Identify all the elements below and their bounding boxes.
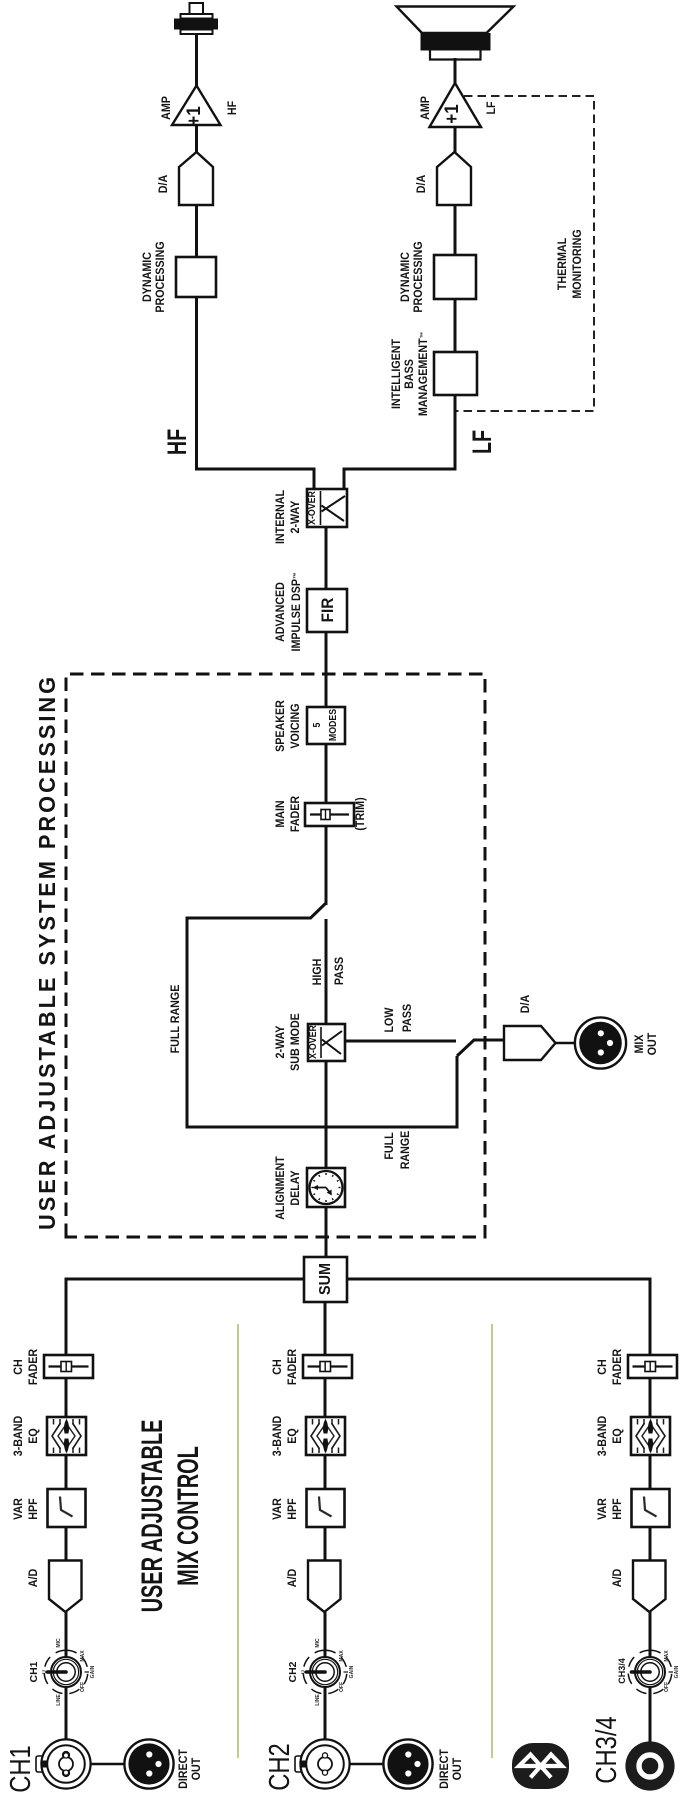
label CH1 CH fader [12,1349,42,1385]
LF amp [430,83,482,127]
label LF amp gain [445,104,461,124]
label CH2 channel name [265,1743,295,1791]
CH1 direct out XLR [124,1739,173,1788]
CH1 A/D converter [49,1561,82,1613]
CH2 channel fader block [303,1355,352,1378]
label CH2 direct out [439,1749,465,1789]
label CH3/4 VAR HPF [596,1498,626,1520]
label CH3/4 channel name [592,1716,622,1783]
wire switch to main fader [325,826,328,905]
wire CH2 A/D to HPF [324,1527,327,1561]
HF compression driver [174,3,218,34]
wire CH2 HPF to EQ [324,1455,327,1489]
wire CH1 knob to A/D [65,1612,68,1657]
wire CH3/4 RCA to knob [649,1686,652,1742]
CH1 channel fader block [44,1355,93,1378]
CH1 3-band EQ block [47,1417,86,1455]
label thermal monitoring [556,229,586,298]
CH3/4 gain knob [628,1650,673,1694]
label full range bottom [383,1132,398,1159]
label CH3/4 CH fader [596,1349,626,1385]
label FIR [320,598,336,623]
label HF small [226,101,241,115]
mix out D/A converter [504,1026,556,1060]
internal 2-way x-over block [307,489,347,527]
label CH1 3-band EQ [12,1416,42,1456]
label full range top [169,985,184,1054]
wire low pass out of sub x-over [345,1040,456,1043]
wire CH1 A/D to HPF [65,1527,68,1561]
label SUM [318,1263,334,1295]
wire CH1 fader to bus [66,1279,304,1355]
wire CH2 EQ to fader [324,1378,327,1417]
wire speaker voicing to FIR [325,632,328,707]
LF dynamic processing block [434,255,476,299]
switch lever full range select [310,903,326,919]
CH2 gain knob [303,1650,348,1694]
CH1 combo XLR input jack [36,1739,91,1788]
dashed box THERMAL MONITORING [456,96,594,411]
wire main fader to speaker voicing [325,744,328,803]
green separator line 2 [491,1324,493,1758]
wire LF line to woofer [454,58,457,471]
CH3/4 channel fader block [628,1355,677,1378]
wire CH2 fader to SUM [324,1301,327,1355]
title user adjustable mix control [135,1420,207,1613]
label trim [354,797,369,830]
label LF big [468,430,496,454]
title user adjustable system processing [35,674,59,1230]
label CH3/4 knob ticks [664,1650,670,1661]
label LF amp [419,96,434,120]
label CH2 3-band EQ [271,1416,301,1456]
wire high pass sub x-over to switch [325,919,328,1024]
CH3/4 3-band EQ block [631,1417,670,1455]
green separator line 1 [237,1324,239,1758]
label speaker voicing [274,700,304,752]
CH3/4 A/D converter [633,1561,666,1613]
alignment delay block [307,1168,345,1207]
label alignment delay [274,1156,304,1220]
label high pass [311,959,326,986]
wire CH1 HPF to EQ [65,1455,68,1489]
label 5 modes [310,709,342,741]
label mix out D/A [519,995,534,1013]
wire CH3/4 knob to A/D [649,1612,652,1657]
label mix out [634,1033,660,1056]
CH2 A/D converter [308,1561,341,1613]
CH2 direct out XLR [383,1739,432,1788]
wire alignment delay to sub x-over [325,1061,328,1168]
wire CH3/4 fader to bus [347,1279,650,1355]
wire CH3/4 EQ to fader [649,1378,652,1417]
switch lever mix out select [457,1040,474,1056]
dashed box USER ADJUSTABLE SYSTEM PROCESSING [66,674,485,1237]
wire CH3/4 A/D to HPF [649,1527,652,1561]
label internal 2-way [274,490,304,544]
label CH2 VAR HPF [271,1498,301,1520]
CH1 variable HPF block [48,1489,86,1527]
wire x-over HF stub [197,469,314,489]
wire to mix out D/A [473,1039,505,1042]
label 2-way sub mode [274,1013,304,1071]
wire CH1 EQ to fader [65,1378,68,1417]
CH3/4 variable HPF block [632,1489,670,1527]
wire CH3/4 HPF to EQ [649,1455,652,1489]
wire SUM to alignment delay [325,1207,328,1257]
wire CH2 knob to A/D [324,1612,327,1657]
label HF D/A [157,175,172,193]
CH1 gain knob [44,1650,89,1694]
label CH2 knob ticks [301,1670,307,1674]
label x-over sub [309,1026,319,1060]
label CH3/4 knob name [617,1658,628,1684]
wire HF line to driver [195,34,198,471]
label intelligent bass management [391,332,431,416]
SUM block [304,1257,347,1302]
label CH2 CH fader [271,1349,301,1385]
label LF small [485,101,500,114]
label main fader [274,796,304,832]
label advanced impulse dsp [274,572,305,651]
LF woofer [397,7,514,60]
label x-over internal [308,492,318,526]
label HF big [163,429,191,455]
label HF amp [160,96,175,120]
label CH1 channel name [6,1745,36,1793]
wire CH2 input to knob [324,1686,327,1739]
label LF dynamic processing [400,241,427,312]
label CH2 A/D [286,1569,301,1587]
HF dynamic processing block [176,257,216,297]
LF D/A converter [437,152,471,205]
wire x-over LF stub [344,469,455,489]
wire mix out D/A to XLR [555,1042,576,1045]
wire full range bypass up [187,918,457,1127]
bluetooth icon [512,1743,569,1789]
CH2 3-band EQ block [306,1417,345,1455]
CH2 variable HPF block [307,1489,345,1527]
label CH1 knob ticks [42,1670,48,1674]
CH3/4 RCA input jack [625,1741,674,1790]
LF intelligent bass management block [434,352,477,395]
wire FIR to internal x-over [325,527,328,589]
label HF dynamic processing [142,241,169,312]
label CH2 knob name [288,1661,299,1682]
label LF D/A [415,175,430,193]
2-way sub mode x-over block [308,1024,345,1061]
HF D/A converter [179,152,213,205]
label CH3/4 3-band EQ [596,1416,626,1456]
main fader block [305,803,354,826]
wire CH2 combo to direct out [349,1763,384,1766]
HF amp [172,86,221,126]
mix out XLR connector [575,1017,626,1068]
label CH3/4 A/D [611,1569,626,1587]
label CH1 direct out [178,1749,204,1789]
wire CH1 combo to direct out [90,1763,125,1766]
label CH1 knob name [29,1661,40,1682]
label low pass [383,1008,398,1033]
label CH1 A/D [27,1569,42,1587]
CH2 combo XLR input jack [295,1739,350,1788]
FIR block [307,589,347,632]
label CH1 VAR HPF [12,1498,42,1520]
wire CH1 input to knob [65,1686,68,1739]
label HF amp gain [187,106,203,126]
speaker voicing block [307,707,345,744]
